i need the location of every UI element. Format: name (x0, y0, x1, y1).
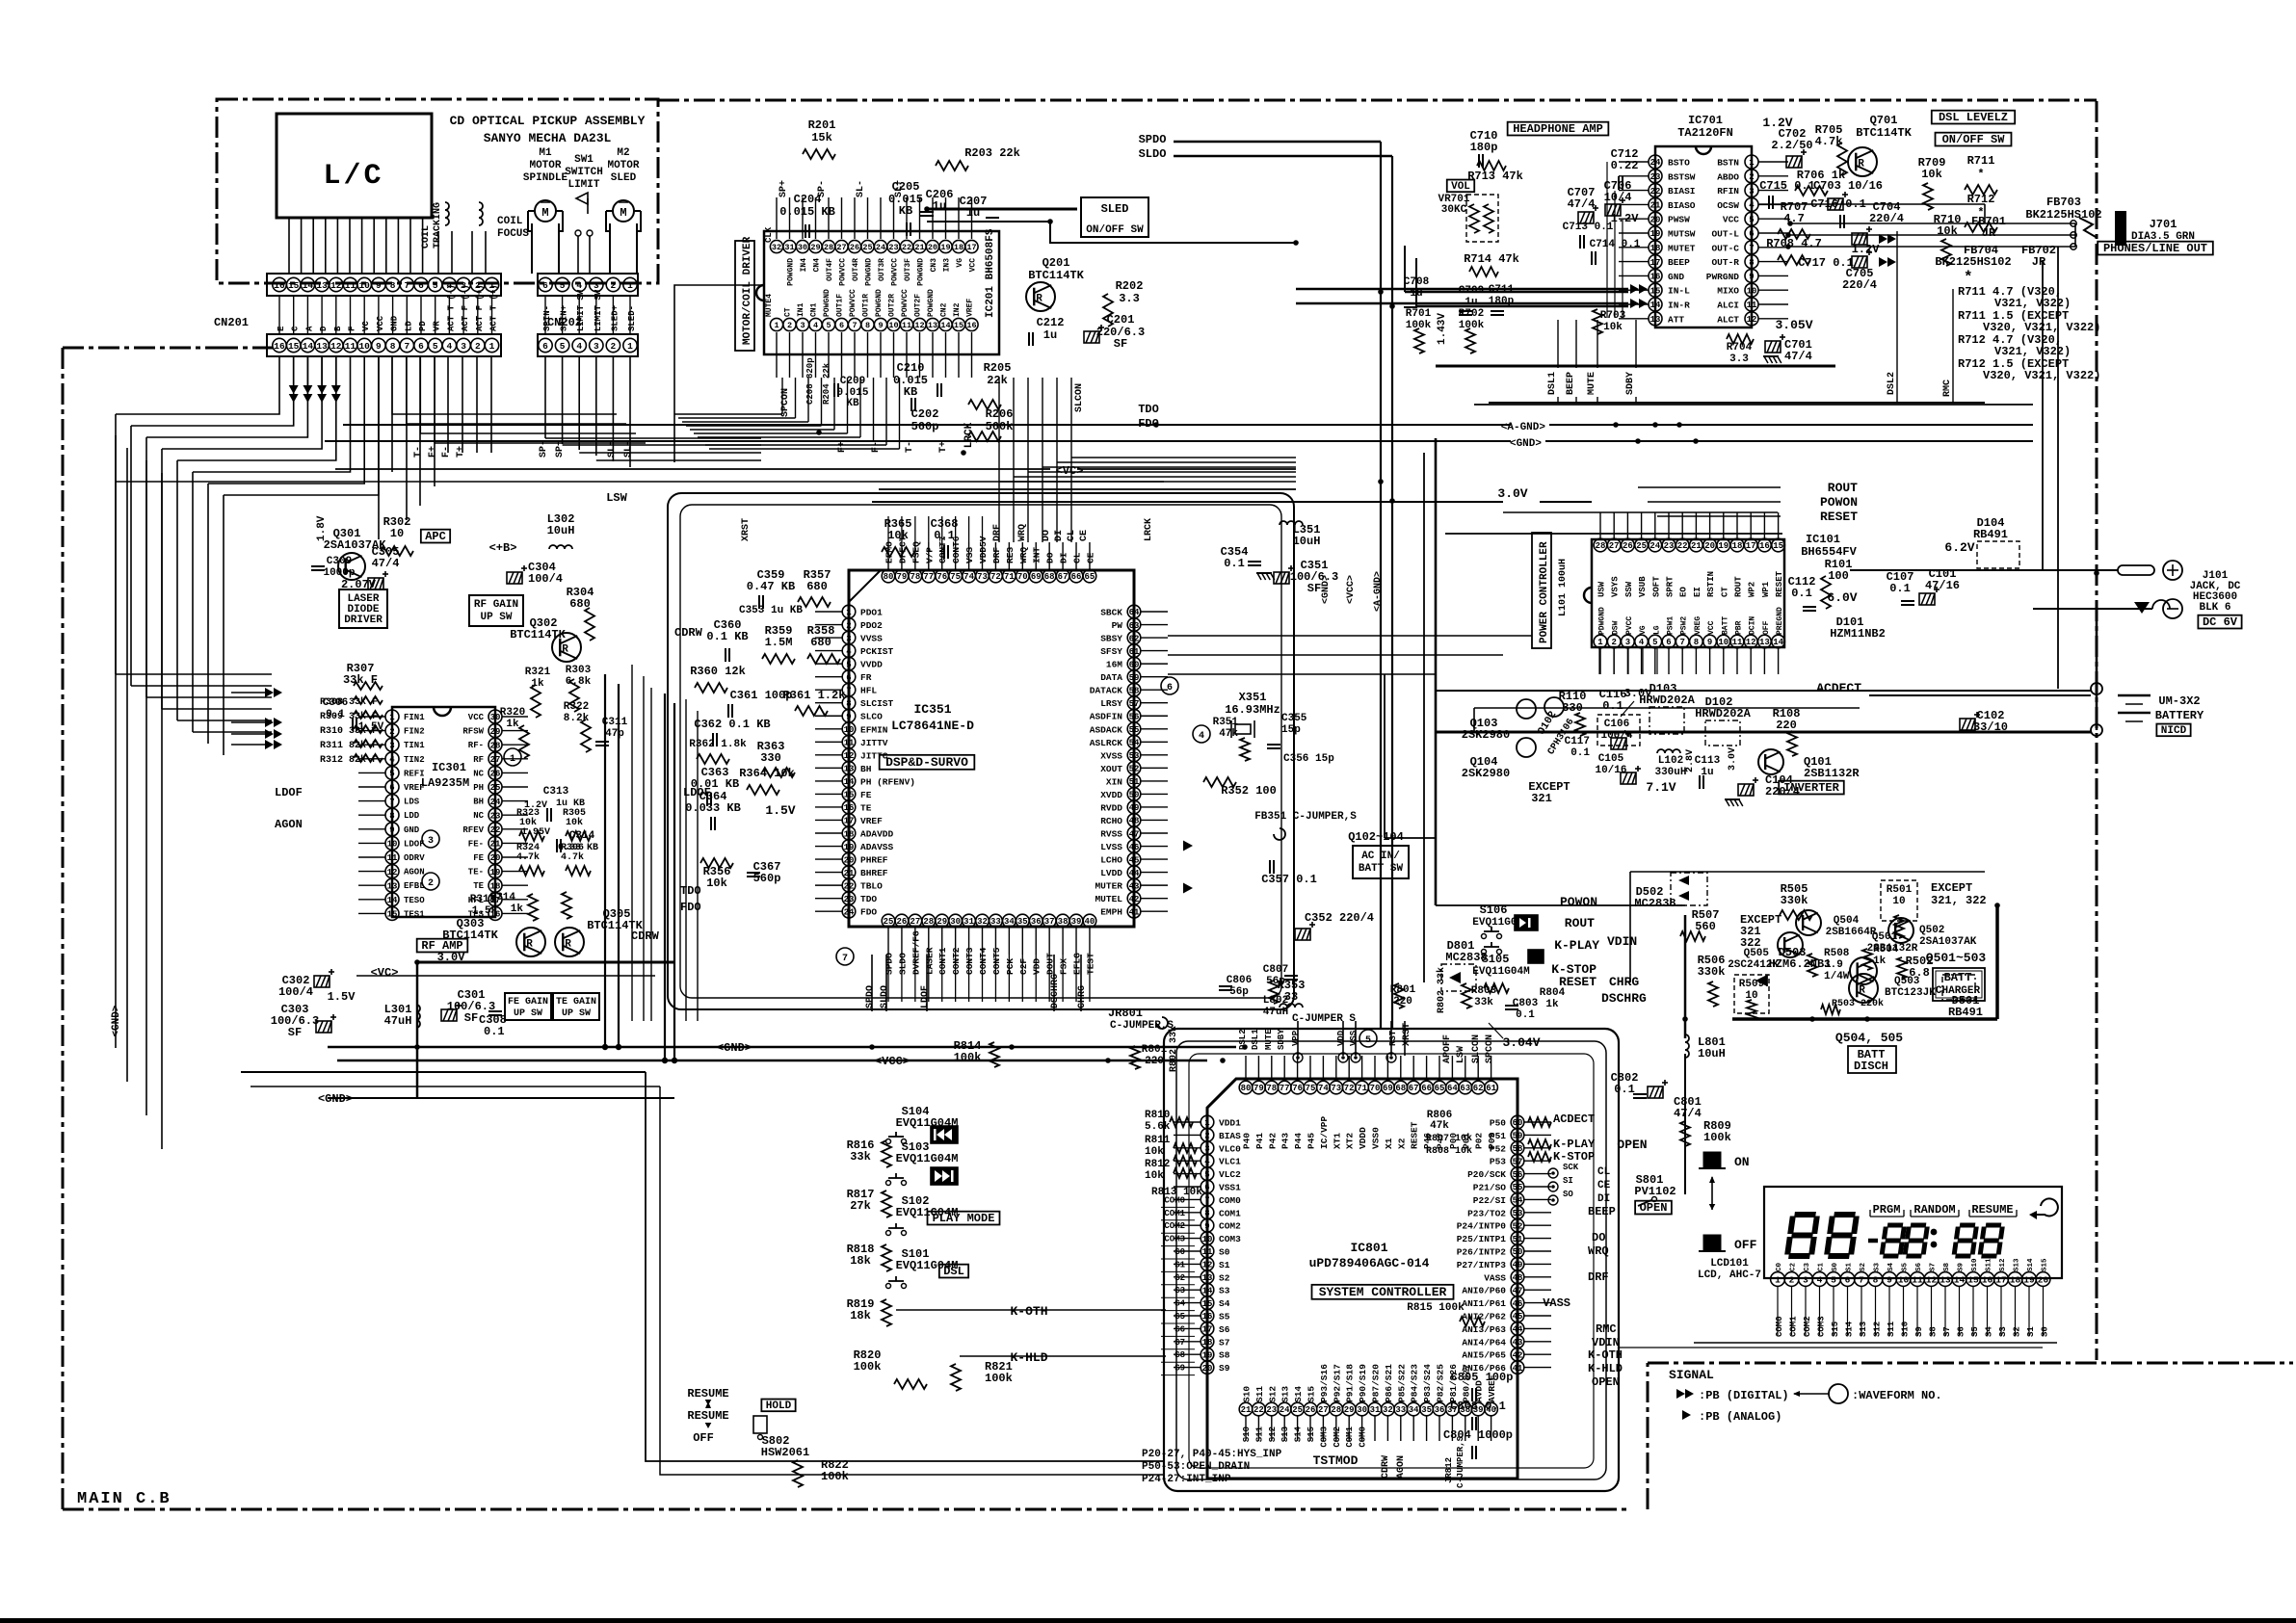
svg-text:1k: 1k (1545, 999, 1559, 1010)
svg-text:F: F (348, 327, 357, 331)
svg-text:POWGND: POWGND (927, 289, 936, 317)
svg-text:7: 7 (842, 954, 848, 964)
svg-text:CE: CE (1079, 530, 1090, 541)
svg-text:S12: S12 (1268, 1427, 1278, 1442)
svg-text:BEEP: BEEP (1566, 372, 1576, 395)
svg-text:32: 32 (772, 243, 781, 252)
svg-text:27: 27 (836, 243, 846, 252)
svg-text:21: 21 (914, 243, 924, 252)
svg-text:17: 17 (844, 817, 855, 826)
svg-text:28: 28 (490, 741, 501, 750)
svg-text:ODRV: ODRV (404, 853, 425, 863)
svg-text:SPDO: SPDO (1139, 133, 1167, 146)
svg-text:C803: C803 (1513, 998, 1539, 1009)
svg-text:43: 43 (1129, 881, 1140, 891)
svg-text:79: 79 (897, 572, 908, 582)
svg-text:LDD: LDD (404, 811, 420, 821)
svg-text:IN-L: IN-L (1668, 286, 1690, 297)
svg-text:XRST: XRST (741, 518, 752, 541)
svg-text:5: 5 (560, 341, 566, 352)
svg-text:FB703: FB703 (2046, 196, 2081, 209)
svg-text:NC: NC (473, 769, 484, 778)
svg-text:10k: 10k (519, 817, 537, 828)
svg-text:SPIN+: SPIN+ (560, 305, 569, 331)
svg-text:22: 22 (1254, 1405, 1264, 1415)
svg-text:APOFF: APOFF (1442, 1034, 1453, 1063)
svg-text:47p: 47p (605, 728, 624, 740)
svg-text:47/4: 47/4 (1674, 1107, 1702, 1120)
svg-text:76: 76 (937, 572, 947, 582)
svg-text:MUTE: MUTE (1587, 372, 1597, 395)
svg-text:ACT F (+): ACT F (+) (475, 284, 485, 331)
svg-text:72: 72 (1344, 1084, 1355, 1093)
svg-text:S5: S5 (1219, 1312, 1230, 1322)
svg-text:1.5V: 1.5V (765, 803, 795, 818)
svg-text:44: 44 (1513, 1325, 1523, 1335)
svg-text:VLC0: VLC0 (1219, 1143, 1241, 1154)
svg-text:46: 46 (1129, 843, 1140, 852)
svg-text:UM-3X2: UM-3X2 (2158, 694, 2200, 708)
svg-text:BIASI: BIASI (1668, 186, 1696, 196)
svg-text:4: 4 (813, 321, 818, 330)
svg-text:66: 66 (1071, 572, 1082, 582)
svg-text:S7: S7 (1219, 1337, 1230, 1348)
svg-text:1: 1 (489, 341, 495, 352)
svg-text:BH: BH (473, 798, 484, 807)
svg-text:S13: S13 (1280, 1427, 1290, 1442)
svg-text:ACT T (-): ACT T (-) (446, 284, 456, 331)
svg-text:LIMIT SW: LIMIT SW (594, 289, 603, 331)
svg-text:COM1: COM1 (1219, 1208, 1241, 1218)
svg-text:20: 20 (928, 243, 937, 252)
svg-text:IC801: IC801 (1350, 1241, 1387, 1255)
svg-text:S7: S7 (1930, 1263, 1938, 1271)
svg-text:CDRW: CDRW (1381, 1455, 1391, 1479)
svg-text:BK2125HS102: BK2125HS102 (1935, 255, 2011, 269)
svg-text:LRSY: LRSY (1100, 698, 1122, 709)
svg-text:27: 27 (1609, 541, 1620, 551)
svg-text:S12: S12 (1999, 1258, 2007, 1271)
svg-text:P23/TO2: P23/TO2 (1467, 1208, 1506, 1218)
svg-text:4: 4 (1817, 1274, 1823, 1285)
svg-text:18: 18 (844, 829, 855, 839)
svg-text:XOUT: XOUT (1100, 764, 1122, 774)
svg-text:P84/S23: P84/S23 (1410, 1364, 1420, 1402)
svg-text:S14: S14 (1294, 1426, 1304, 1442)
svg-text:*: * (1964, 269, 1973, 286)
svg-text:13: 13 (387, 881, 398, 891)
svg-text:12: 12 (844, 751, 855, 761)
svg-text:S13: S13 (2014, 1258, 2021, 1271)
svg-text:COM0: COM0 (1219, 1195, 1241, 1206)
svg-text:C: C (291, 326, 301, 331)
svg-text:10: 10 (1892, 896, 1905, 907)
svg-text:MC2838: MC2838 (1634, 897, 1676, 910)
svg-text:DSL LEVELZ: DSL LEVELZ (1939, 111, 2008, 124)
svg-text:36: 36 (1031, 917, 1042, 927)
svg-text:19: 19 (1718, 541, 1729, 551)
svg-text:COM2: COM2 (1333, 1427, 1342, 1448)
svg-text:330uH: 330uH (1654, 767, 1686, 778)
svg-text:60: 60 (1129, 660, 1140, 669)
svg-text:SW1: SW1 (574, 154, 594, 166)
svg-text:R504: R504 (1873, 944, 1899, 955)
svg-text:16: 16 (844, 803, 855, 813)
svg-text:80: 80 (1241, 1084, 1252, 1093)
svg-text:POWVCC: POWVCC (901, 289, 910, 317)
svg-text:C-JUMPER,S: C-JUMPER,S (1456, 1435, 1465, 1488)
svg-text:HEADPHONE AMP: HEADPHONE AMP (1513, 122, 1603, 136)
svg-text:RSTIN: RSTIN (1706, 571, 1716, 597)
svg-text:SBCK: SBCK (1100, 608, 1122, 618)
svg-text:7: 7 (1859, 1274, 1864, 1285)
svg-text:C703 10/16: C703 10/16 (1813, 179, 1883, 193)
svg-text:13: 13 (316, 280, 328, 291)
svg-text:18: 18 (1732, 541, 1743, 551)
svg-text:HZM11NB2: HZM11NB2 (1830, 627, 1886, 641)
svg-text:P02: P02 (1474, 1133, 1485, 1149)
svg-text:OPEN: OPEN (1617, 1138, 1647, 1152)
svg-text:35: 35 (1421, 1405, 1432, 1415)
svg-text:100/4: 100/4 (528, 572, 563, 586)
svg-text:T+: T+ (938, 441, 949, 453)
svg-text:17: 17 (1746, 541, 1756, 551)
svg-text:29: 29 (937, 917, 947, 927)
svg-text:18: 18 (2010, 1274, 2021, 1285)
svg-text:POWVCC: POWVCC (849, 289, 858, 317)
svg-text:3.9: 3.9 (1824, 959, 1843, 971)
svg-text:56p: 56p (1229, 986, 1249, 998)
svg-text:CONT1: CONT1 (937, 947, 948, 975)
svg-text:OFF: OFF (1762, 620, 1771, 635)
svg-text:S13: S13 (1280, 1386, 1291, 1402)
svg-text:ALCI: ALCI (1717, 301, 1739, 311)
svg-text:51: 51 (1513, 1235, 1523, 1244)
svg-text:21: 21 (1691, 541, 1702, 551)
svg-text:C0: C0 (1776, 1262, 1783, 1271)
svg-text:6: 6 (542, 341, 548, 352)
svg-text:POWER CONTROLLER: POWER CONTROLLER (1539, 541, 1550, 643)
svg-text:6: 6 (542, 280, 548, 291)
svg-text:C352 220/4: C352 220/4 (1305, 911, 1374, 925)
svg-text:5: 5 (826, 321, 831, 330)
svg-text:R711: R711 (1967, 154, 1995, 168)
svg-text:TIN2: TIN2 (404, 755, 425, 765)
svg-text:VDIN: VDIN (1607, 934, 1637, 949)
svg-text:FSX: FSX (1059, 958, 1069, 975)
svg-text:ABDO: ABDO (1717, 171, 1739, 182)
svg-text:11: 11 (902, 321, 911, 330)
svg-text:22: 22 (1677, 541, 1688, 551)
svg-text:RVSS: RVSS (1100, 829, 1122, 840)
svg-text:P83/S24: P83/S24 (1422, 1364, 1433, 1402)
svg-text:21: 21 (1241, 1405, 1252, 1415)
svg-text:23: 23 (888, 243, 898, 252)
svg-text:P03: P03 (1487, 1133, 1497, 1149)
svg-text:FE: FE (473, 853, 484, 863)
svg-text:14: 14 (940, 321, 950, 330)
svg-text:39: 39 (1071, 917, 1082, 927)
svg-text:1.43V: 1.43V (1437, 313, 1448, 345)
svg-text:20: 20 (2038, 1274, 2049, 1285)
svg-text:P20-27, P40-45:HYS_INP: P20-27, P40-45:HYS_INP (1142, 1449, 1282, 1460)
svg-text:A: A (304, 326, 314, 331)
svg-text:TEST: TEST (1085, 953, 1095, 975)
svg-text:R203 22k: R203 22k (964, 146, 1020, 160)
svg-text:OUT2R: OUT2R (888, 294, 897, 317)
svg-text:COM2: COM2 (1803, 1316, 1812, 1337)
svg-text:7: 7 (1749, 244, 1754, 253)
svg-text:S0: S0 (1832, 1262, 1839, 1271)
svg-text:X1: X1 (1384, 1138, 1394, 1149)
svg-text:45: 45 (1129, 855, 1140, 865)
svg-text:VVDD: VVDD (860, 660, 883, 670)
svg-text:<GND>: <GND> (1510, 438, 1542, 450)
svg-text:P93/S16: P93/S16 (1319, 1364, 1330, 1402)
svg-text:DSL1: DSL1 (1547, 372, 1558, 395)
svg-text:CDRW: CDRW (631, 929, 660, 943)
svg-text:EVQ11G04M: EVQ11G04M (1472, 966, 1530, 978)
svg-text:DO: DO (1045, 552, 1056, 563)
svg-text:PLAY MODE: PLAY MODE (933, 1212, 995, 1225)
svg-text:R360 12k: R360 12k (690, 665, 746, 678)
svg-text:RESUME: RESUME (1971, 1203, 2013, 1217)
svg-text:13: 13 (1202, 1273, 1213, 1283)
svg-text:18: 18 (1650, 244, 1661, 253)
svg-text:BTC123JK: BTC123JK (1885, 987, 1936, 999)
svg-text:20: 20 (490, 853, 501, 863)
svg-text:10k: 10k (1921, 168, 1942, 181)
svg-text:SWITCH: SWITCH (565, 167, 603, 178)
svg-text:POWGND: POWGND (787, 258, 796, 286)
svg-text:47k: 47k (1219, 728, 1238, 740)
svg-text:Q501~503: Q501~503 (1926, 951, 1987, 965)
svg-text:P45: P45 (1306, 1133, 1317, 1149)
svg-text:LC78641NE-D: LC78641NE-D (891, 719, 974, 733)
svg-text:P50: P50 (1490, 1118, 1506, 1129)
svg-text:17: 17 (966, 243, 976, 252)
svg-text:V321, V322): V321, V322) (1994, 297, 2071, 310)
svg-text:680: 680 (810, 636, 831, 649)
svg-text:60: 60 (1513, 1118, 1523, 1128)
svg-text:T-: T- (413, 446, 424, 458)
svg-text:VOL: VOL (1451, 181, 1470, 193)
svg-text:8: 8 (1749, 258, 1754, 268)
svg-text:28: 28 (1596, 541, 1606, 551)
svg-text:BIASO: BIASO (1668, 200, 1696, 211)
svg-text:15: 15 (1202, 1299, 1213, 1309)
svg-text:INT: INT (1032, 547, 1042, 563)
svg-text:5: 5 (433, 280, 438, 291)
svg-text:47: 47 (1513, 1286, 1523, 1296)
svg-text:330k: 330k (1698, 965, 1726, 979)
svg-text:APC: APC (425, 530, 446, 543)
svg-text:VASS: VASS (1484, 1272, 1506, 1283)
svg-text:RST: RST (1388, 1030, 1398, 1046)
svg-text::PB (ANALOG): :PB (ANALOG) (1699, 1410, 1781, 1424)
svg-text:DSL: DSL (943, 1265, 964, 1278)
svg-text:C117: C117 (1565, 736, 1590, 747)
svg-text:1k: 1k (506, 719, 519, 730)
svg-text:1: 1 (774, 321, 779, 330)
svg-text:POWGND: POWGND (875, 289, 884, 317)
svg-text:19: 19 (844, 843, 855, 852)
svg-text:23: 23 (1664, 541, 1675, 551)
svg-text:S14: S14 (1845, 1321, 1855, 1337)
svg-text:13: 13 (1759, 638, 1770, 647)
svg-text:30: 30 (798, 243, 807, 252)
svg-text:2SB1664R: 2SB1664R (1826, 927, 1877, 938)
svg-text:R810: R810 (1145, 1110, 1170, 1121)
svg-text:15: 15 (954, 321, 963, 330)
svg-text:9: 9 (376, 341, 382, 352)
svg-text:54: 54 (1513, 1196, 1523, 1206)
svg-text:T+: T+ (456, 446, 466, 458)
svg-text:LRCK: LRCK (1144, 518, 1154, 541)
svg-text:PRGM: PRGM (1873, 1203, 1901, 1217)
svg-text:6: 6 (839, 321, 844, 330)
svg-text:0.1: 0.1 (1602, 699, 1623, 713)
svg-text:SLED: SLED (1101, 202, 1129, 216)
svg-text:OPEN: OPEN (1640, 1201, 1668, 1215)
svg-text:10: 10 (358, 280, 370, 291)
svg-text:SP+: SP+ (555, 440, 566, 458)
svg-text:4.7k: 4.7k (516, 851, 540, 863)
svg-text:<A-GND>: <A-GND> (1373, 571, 1384, 612)
svg-text:HSW2061: HSW2061 (761, 1446, 809, 1459)
svg-text:Q503: Q503 (1894, 976, 1920, 987)
svg-text:S8: S8 (1219, 1350, 1230, 1361)
svg-text:10k: 10k (1455, 1133, 1472, 1144)
svg-text:10: 10 (358, 341, 370, 352)
svg-text:23: 23 (844, 895, 855, 904)
svg-text:MUTET: MUTET (1668, 243, 1696, 253)
svg-text:CL: CL (1597, 1166, 1611, 1178)
svg-text:30: 30 (950, 917, 961, 927)
svg-text:ON: ON (1734, 1155, 1750, 1169)
svg-text:RESET: RESET (1775, 570, 1784, 597)
svg-text:57: 57 (1129, 699, 1140, 709)
svg-text:T-: T- (905, 441, 915, 453)
svg-text:<+B>: <+B> (489, 541, 517, 555)
svg-text:0.015 KB: 0.015 KB (779, 205, 835, 219)
svg-text:15: 15 (387, 910, 398, 920)
svg-text:VSS1: VSS1 (1219, 1183, 1241, 1193)
svg-text:FIN2: FIN2 (404, 727, 425, 737)
svg-text:3: 3 (594, 341, 599, 352)
svg-text:IC301: IC301 (432, 761, 466, 774)
svg-text:PDO2: PDO2 (860, 620, 883, 631)
svg-text:VG: VG (1639, 625, 1648, 635)
svg-text:66: 66 (1421, 1084, 1432, 1093)
svg-text:TDO: TDO (1138, 403, 1159, 416)
svg-text:PCK: PCK (1005, 958, 1016, 975)
svg-text:RFIN: RFIN (1717, 186, 1739, 196)
svg-text:COM2: COM2 (1219, 1221, 1241, 1232)
svg-text:R: R (1036, 294, 1042, 305)
svg-text:XVSS: XVSS (1100, 750, 1122, 761)
svg-text:NICD: NICD (2161, 725, 2187, 737)
svg-text:MUTER: MUTER (1095, 881, 1122, 892)
svg-text:CN3: CN3 (930, 258, 938, 273)
svg-text:25: 25 (884, 917, 894, 927)
svg-text:S6: S6 (1915, 1262, 1923, 1271)
svg-text:10: 10 (888, 321, 898, 330)
svg-text:2: 2 (475, 341, 481, 352)
svg-text:0.1: 0.1 (934, 529, 955, 542)
svg-text:LDOF: LDOF (404, 839, 425, 849)
svg-text::WAVEFORM NO.: :WAVEFORM NO. (1852, 1389, 1942, 1402)
svg-text:PBR: PBR (1735, 620, 1744, 635)
svg-text:17: 17 (1650, 258, 1661, 268)
svg-text:14: 14 (303, 280, 314, 291)
svg-text:57: 57 (1513, 1157, 1523, 1166)
svg-text:73: 73 (977, 572, 988, 582)
svg-text:EMPH: EMPH (1100, 907, 1122, 918)
svg-text:10: 10 (1718, 638, 1729, 647)
svg-text:C-JUMPER S: C-JUMPER S (1292, 1013, 1356, 1025)
svg-text:47/4: 47/4 (372, 557, 400, 570)
svg-text:11: 11 (844, 739, 855, 748)
svg-text:UP SW: UP SW (514, 1008, 542, 1019)
svg-text:2.2/50: 2.2/50 (1771, 139, 1812, 152)
svg-text:13: 13 (1650, 315, 1661, 325)
svg-text:RCHO: RCHO (1100, 816, 1122, 826)
svg-text:47/16: 47/16 (1925, 579, 1960, 592)
svg-text:S1: S1 (2026, 1326, 2036, 1337)
svg-text:CT: CT (784, 307, 793, 317)
svg-text:100k: 100k (1459, 320, 1485, 331)
svg-text:1.5V: 1.5V (358, 721, 384, 733)
svg-text:OCSW: OCSW (1717, 200, 1739, 211)
svg-text:17: 17 (1995, 1274, 2007, 1285)
svg-text:SLED+: SLED+ (610, 305, 620, 331)
svg-text:22: 22 (844, 881, 855, 891)
svg-text:ATT: ATT (1668, 314, 1684, 325)
svg-text:PWRGND: PWRGND (1706, 272, 1740, 282)
svg-text:2: 2 (1611, 638, 1616, 647)
svg-text:100/4: 100/4 (278, 985, 313, 999)
svg-text:10k: 10k (706, 877, 727, 890)
svg-text:14: 14 (1954, 1274, 1966, 1285)
svg-text:24: 24 (1650, 158, 1661, 168)
svg-text:3.04V: 3.04V (1502, 1035, 1540, 1050)
svg-text:L/C: L/C (323, 160, 383, 193)
svg-text:16.93MHz: 16.93MHz (1225, 703, 1280, 717)
svg-text:ON/OFF SW: ON/OFF SW (1942, 133, 2006, 146)
svg-text:EVQ11G04M: EVQ11G04M (896, 1152, 959, 1165)
svg-text:P92/S17: P92/S17 (1332, 1364, 1342, 1402)
svg-text:50: 50 (1513, 1247, 1523, 1257)
svg-text:DSL1: DSL1 (1251, 1029, 1260, 1050)
svg-text:CE: CE (1597, 1180, 1611, 1191)
svg-text:43: 43 (1513, 1338, 1523, 1348)
svg-text:100: 100 (1828, 569, 1849, 583)
svg-text:PW: PW (1112, 620, 1123, 631)
svg-text:S15: S15 (1306, 1386, 1317, 1402)
svg-text:DSP&D-SURVO: DSP&D-SURVO (885, 755, 968, 770)
svg-text:25: 25 (490, 783, 501, 793)
svg-text:HRWD202A: HRWD202A (1639, 694, 1695, 707)
svg-text:18: 18 (490, 881, 501, 891)
svg-text:17: 17 (1202, 1325, 1213, 1335)
svg-text:J701: J701 (2150, 218, 2177, 231)
svg-text:5: 5 (389, 770, 394, 779)
svg-text:K-PLAY: K-PLAY (1553, 1138, 1596, 1151)
svg-text:CONT2: CONT2 (951, 947, 962, 975)
svg-text:COM0: COM0 (1359, 1427, 1368, 1448)
svg-text:CN2: CN2 (940, 302, 949, 317)
